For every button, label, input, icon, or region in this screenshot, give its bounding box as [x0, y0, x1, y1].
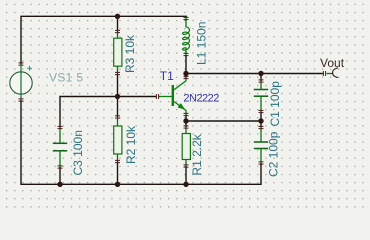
wire R3 top: [117, 16, 119, 31]
wire R1 top: [185, 121, 187, 127]
wire top rail and VS1 top lead: [21, 16, 187, 64]
wire R2 bottom: [117, 162, 119, 185]
pin VS1 plus terminal: [19, 63, 24, 65]
pin C2 bottom: [259, 162, 264, 164]
pin C1 top: [259, 80, 264, 82]
wire collector node horizontal: [186, 73, 324, 75]
node junction emitter: [183, 118, 188, 123]
wire emitter stub: [185, 115, 187, 122]
node junction C3 ground: [57, 182, 62, 187]
pin C2 top: [259, 126, 264, 128]
svg-text:2N2222: 2N2222: [183, 93, 219, 105]
pin R1 bottom: [184, 165, 189, 167]
pin R3 top: [115, 30, 120, 32]
inductor L1: [183, 16, 190, 55]
pin R2 bottom: [115, 160, 120, 162]
node junction C1 out: [258, 71, 263, 76]
wire emitter node horizontal: [186, 120, 261, 122]
capacitor C3: [53, 128, 67, 168]
pin R1 top: [184, 126, 189, 128]
pin T1 emitter: [184, 113, 189, 115]
pin C3 bottom: [58, 166, 63, 168]
pin Vout terminal: [323, 71, 325, 76]
wire R1 bottom: [185, 166, 187, 184]
svg-text:C3 100n: C3 100n: [71, 130, 85, 175]
node junction base: [115, 94, 120, 99]
svg-text:L1 150n: L1 150n: [195, 22, 209, 65]
wire base horizontal and C3 top lead: [60, 97, 157, 128]
pin T1 collector: [184, 76, 189, 78]
wire C3 bottom: [59, 167, 61, 184]
pin L1 bottom: [184, 53, 189, 55]
pin R2 top: [115, 116, 120, 118]
pin L1 top: [184, 17, 189, 19]
wire R2 top: [117, 97, 119, 118]
svg-text:R3 10k: R3 10k: [123, 34, 137, 73]
pin C3 top: [58, 126, 63, 128]
node junction R2 ground: [115, 182, 120, 187]
resistor R1: [182, 127, 190, 166]
resistor R3: [114, 32, 122, 74]
svg-text:R1 2.2k: R1 2.2k: [190, 133, 204, 175]
pin C1 bottom: [259, 110, 264, 112]
wire L1 bottom: [185, 55, 187, 74]
resistor R2: [114, 117, 122, 162]
pin VS1 minus terminal: [19, 99, 24, 101]
transistor T1: [158, 78, 186, 115]
node junction R3 top rail: [115, 14, 120, 19]
wire VS1 bottom lead and bottom ground rail: [21, 100, 261, 184]
wire R3 bottom to base node: [117, 74, 119, 97]
wire C2 top: [260, 121, 262, 128]
svg-text:C1 100p: C1 100p: [268, 81, 282, 127]
svg-text:T1: T1: [160, 69, 174, 83]
wire C1 top: [260, 74, 262, 82]
node Vout output terminal: [327, 68, 339, 78]
wire C1 bottom: [260, 112, 262, 122]
node junction R1 ground: [183, 182, 188, 187]
voltage source VS1: [10, 64, 32, 100]
pin R3 bottom: [115, 72, 120, 74]
node junction C2 top: [258, 118, 263, 123]
node junction collector: [183, 71, 188, 76]
wire collector stub: [185, 74, 187, 78]
pin T1 base: [156, 94, 158, 99]
capacitor C2: [254, 128, 268, 164]
svg-text:R2 10k: R2 10k: [124, 125, 138, 164]
svg-text:VS1 5: VS1 5: [49, 71, 83, 85]
svg-text:C2 100p: C2 100p: [267, 131, 281, 177]
svg-text:Vout: Vout: [320, 56, 345, 70]
capacitor C1: [254, 81, 268, 112]
